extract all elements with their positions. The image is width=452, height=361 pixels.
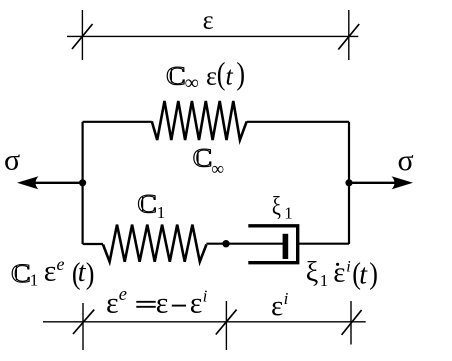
- svg-text:∞: ∞: [185, 72, 199, 94]
- svg-text:t: t: [226, 61, 234, 90]
- svg-text:1: 1: [284, 203, 293, 222]
- svg-text:ε: ε: [106, 287, 119, 320]
- svg-text:ε: ε: [190, 287, 203, 320]
- svg-text:(: (: [217, 57, 226, 92]
- svg-text:i: i: [203, 287, 208, 306]
- svg-text:): ): [86, 256, 95, 291]
- svg-text:1: 1: [157, 203, 166, 222]
- svg-text:σ: σ: [398, 144, 414, 177]
- svg-text:1: 1: [30, 271, 39, 290]
- svg-text:ξ: ξ: [306, 257, 319, 288]
- svg-text:σ: σ: [4, 143, 20, 176]
- svg-text:i: i: [346, 259, 350, 276]
- svg-text:∞: ∞: [211, 159, 224, 179]
- svg-text:1: 1: [320, 271, 329, 290]
- svg-text:): ): [236, 57, 245, 92]
- svg-text:): ): [369, 256, 378, 291]
- svg-text:e: e: [119, 285, 127, 305]
- svg-text:ξ: ξ: [272, 192, 281, 221]
- svg-text:e: e: [57, 254, 65, 274]
- svg-text:t: t: [359, 259, 368, 290]
- svg-text:i: i: [284, 289, 289, 308]
- svg-text:ε: ε: [206, 61, 217, 90]
- svg-text:ε: ε: [44, 255, 57, 288]
- svg-text:ε: ε: [333, 256, 345, 288]
- svg-text:ε: ε: [203, 6, 214, 35]
- svg-text:ε: ε: [271, 290, 283, 322]
- svg-text:ε: ε: [156, 287, 169, 320]
